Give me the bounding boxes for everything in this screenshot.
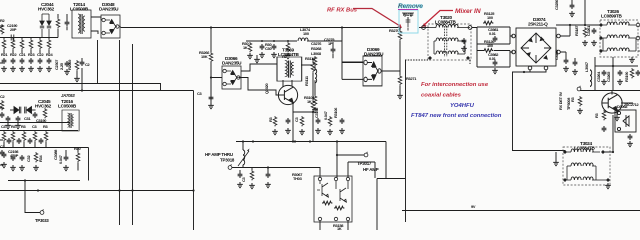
capacitor x67 [65,20,70,26]
switch box Q3021/Q3022 [314,176,352,222]
top small row caps [6,116,11,122]
bottom pins diamonds [428,56,470,60]
wire 9V bus y=210 [402,210,640,212]
capacitor hang 2 [260,44,265,50]
svg-text:C32: C32 [26,155,31,162]
varactor box right [615,110,636,132]
svg-text:JA7053: JA7053 [61,93,75,98]
wire TP3033 drop [25,181,40,213]
svg-text:1K: 1K [307,99,312,104]
svg-text:100: 100 [303,31,309,36]
svg-text:Q3020: Q3020 [264,83,269,94]
wire x337 drop from bus [337,142,364,178]
capacitor at T3020 output [462,38,467,44]
ground [208,103,214,109]
svg-text:0.047: 0.047 [58,155,63,164]
node y190 x38 [37,189,39,191]
pins [422,26,426,30]
node y180 x25 [24,179,26,181]
svg-text:FT847 new front end connection: FT847 new front end connection [411,113,502,119]
svg-text:R3187: R3187 [574,26,579,36]
node y190 x132 [131,189,133,191]
wire T3026 feed y=25 [556,24,601,26]
wire x348 drop [348,162,375,178]
svg-text:For interconnection use: For interconnection use [421,82,489,88]
node y90 x82 [81,89,83,91]
resistor top-left [56,18,60,28]
wire main RF bus y=27.5 [121,27,400,29]
svg-text:470P: 470P [10,153,19,158]
wire left low bus y=147 [0,147,89,149]
svg-text:C3260: C3260 [554,50,559,60]
wire top-left bus y=37 [0,37,58,39]
svg-text:L3068: L3068 [311,51,322,56]
ground top [254,57,260,63]
svg-text:R3106: R3106 [333,107,338,118]
svg-text:TP3017: TP3017 [357,161,372,166]
node bus junction x=342 [341,26,343,28]
wire right bus y=90 [580,90,640,92]
wire D3069 out right [381,46,400,76]
svg-text:R22: R22 [10,52,17,57]
svg-text:R23: R23 [28,52,35,57]
svg-text:R3271: R3271 [406,76,417,81]
svg-text:C3190: C3190 [36,118,46,123]
svg-text:C30: C30 [265,46,271,51]
jumper inside [402,13,414,31]
svg-text:100: 100 [487,43,493,48]
wire bus after jumper to T3020 [419,27,429,29]
wire D3069 left lower pin [342,62,363,79]
svg-text:HVC362: HVC362 [38,7,55,12]
caps under y147 [2,152,7,158]
svg-text:C3265: C3265 [606,71,611,82]
node y141 x253 [252,140,254,142]
svg-text:D3068: D3068 [617,104,628,109]
svg-text:R3190: R3190 [624,72,629,82]
caps row B [7,138,12,144]
wires mixer bottom [512,70,546,72]
svg-text:C3264: C3264 [596,71,601,82]
wire left low bus y=122 [0,122,70,124]
svg-text:100: 100 [487,15,493,20]
svg-text:TP3018: TP3018 [220,158,235,163]
node y190 x119 [118,189,120,191]
capacitor on x82 drop [80,60,85,66]
wire vertical x=132 [132,44,134,225]
svg-text:1K: 1K [337,226,342,230]
svg-text:TH03: TH03 [293,176,303,181]
cyan highlight box [399,10,418,33]
svg-text:DAN235U: DAN235U [222,61,242,66]
wire T3069 out right [301,58,313,142]
wire mid-left bus y=90.5 [0,90,194,92]
wire HF amp bus y=141.5 [236,142,386,179]
node y141 x295 [294,140,296,142]
svg-text:DAN235U: DAN235U [99,7,119,12]
svg-text:L3067: L3067 [584,62,589,72]
dashed box [428,24,471,60]
wire left edge stubs [0,26,4,165]
wire T3020 to loop1 [472,27,513,67]
wire TP3018 row y=167.5 [232,168,320,178]
svg-text:1K: 1K [243,45,248,50]
svg-text:R3272: R3272 [403,12,414,17]
caps top [573,60,578,66]
wire left low bus y=130 [0,130,78,132]
wire from x211 to D3066 [211,70,222,95]
wire from bus down x342 [342,28,363,63]
svg-text:R34: R34 [38,155,43,162]
node y141 x310 [309,140,311,142]
ground loop2 [492,68,498,74]
svg-text:C3261: C3261 [586,25,591,36]
resistor under TP [578,96,582,106]
left edge components [0,18,6,156]
svg-text:LC0884TB: LC0884TB [278,52,299,57]
wire bottom-left bus y=190 [0,190,194,192]
wire y=83 [0,84,161,91]
svg-text:RX DET 9V: RX DET 9V [558,91,563,110]
svg-text:HVC362: HVC362 [35,104,52,109]
coil rows [429,24,470,57]
node y190 x193 [192,189,194,191]
resistor inside 1 [322,201,332,205]
wire T3069 left [257,63,277,65]
svg-text:R30: R30 [74,146,80,151]
svg-text:9V: 9V [471,204,476,209]
svg-text:0.01: 0.01 [489,31,497,36]
svg-text:HF AMP: HF AMP [363,167,379,172]
capacitor hang 3 [272,44,277,50]
node bus junction x=211 [210,26,212,28]
wire vertical x=193.5 [193,91,195,231]
wires D3066 out [238,64,257,90]
ground below cap [461,46,467,52]
svg-text:LC0500B: LC0500B [70,7,89,12]
svg-text:R3270: R3270 [389,28,399,33]
wire supply row [246,28,342,42]
node y167 x268 [267,166,269,168]
svg-text:20P: 20P [10,27,17,32]
junction dots on row [261,40,263,42]
caps cluster at 320-345 y112-138 [340,118,345,124]
caps row with grounds [2,58,7,64]
wires mixer right [560,25,570,58]
resistors right of T3069 [311,62,315,72]
red arrow to junction [424,11,453,26]
varactor pair 2 [10,107,36,114]
transistor Q3021 inside [317,183,346,202]
svg-text:Remove: Remove [398,3,423,10]
test point TP3008 [577,86,581,91]
wire collector from T3069 [283,80,292,87]
resistor inside 2 [334,206,344,210]
wire x=97 drop [97,40,99,84]
cap mid [33,112,38,118]
components above [602,110,606,120]
svg-text:LC0899TB: LC0899TB [601,14,622,19]
svg-text:R2069: R2069 [67,59,72,70]
resistor row A [2,39,6,49]
red arrow line to bus [353,9,400,27]
wire vertical x=405 [405,60,407,222]
wire stubs [58,14,67,38]
svg-text:R21: R21 [1,52,8,57]
wire below box [405,60,470,64]
left edge stubs [0,26,4,165]
svg-text:R3111: R3111 [304,75,309,86]
svg-text:0.047: 0.047 [323,111,328,120]
mixer diodes [526,37,548,60]
RC cluster row under HF amp [273,116,277,126]
caps under TP row [238,172,243,178]
magenta underline under Remove [398,9,418,11]
svg-text:C31: C31 [24,116,31,121]
adjustable coil at 243 [243,150,245,165]
test point TP3018 [228,164,232,169]
section border corner [377,179,405,231]
test point TP3033 [40,209,44,214]
svg-text:TP3033: TP3033 [35,218,49,223]
svg-text:1P: 1P [328,41,333,46]
coil x315 [315,69,317,83]
svg-text:YO4HFU: YO4HFU [450,103,475,109]
resistor mid [43,108,47,118]
resistor x315 [313,56,317,66]
wire mixer out drop x=512 [513,72,566,151]
svg-text:10K: 10K [201,54,208,59]
svg-text:LC0500B: LC0500B [58,104,77,109]
wire T2014 to D3048 [91,17,101,34]
svg-text:2-25: 2-25 [59,62,64,70]
svg-text:C21: C21 [19,52,26,57]
resistor hang 4 [286,42,290,52]
svg-text:coaxial cables: coaxial cables [421,93,462,99]
svg-text:C22: C22 [37,52,44,57]
wire base [257,90,279,95]
svg-text:Mixer IN: Mixer IN [455,8,481,15]
wire vertical x=119 [119,40,121,225]
wire emitter down [293,102,313,142]
resistor row B [2,131,6,141]
wire section bottom y=180 [8,148,89,181]
transistor Q3008 [602,93,622,113]
test point TP3017 [364,152,368,157]
wire vertical x=211 [210,28,212,105]
wire box bottom drops [320,221,348,230]
svg-text:C3256: C3256 [554,0,559,10]
varactor D pair [40,14,51,38]
svg-text:2SK211-Q: 2SK211-Q [528,22,548,27]
wire D3048 out [120,27,121,28]
svg-text:HF AMP THRU: HF AMP THRU [205,152,233,157]
wire pins inside [320,181,348,189]
svg-text:R24: R24 [46,52,53,57]
wire x=82 drop [81,58,83,91]
svg-text:0.01: 0.01 [489,56,497,61]
